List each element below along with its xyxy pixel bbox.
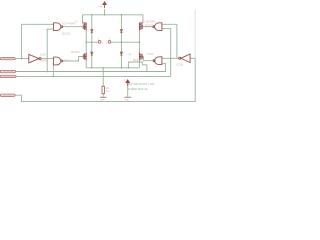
svg-text:MOTOR SUPPLY 12V: MOTOR SUPPLY 12V [128, 82, 155, 86]
wire faint right edge upper [194, 10, 196, 59]
nand gate IC1D (mirrored) [153, 57, 162, 65]
wire P4 to bus [15, 58, 195, 101]
wire vertical feedback up [21, 24, 53, 58]
svg-text:BUZ11: BUZ11 [145, 23, 154, 27]
connector pin P4 [0, 94, 15, 96]
svg-text:+5V: +5V [98, 5, 103, 8]
wire sense resistor drop [102, 68, 104, 86]
node rail dots [91, 14, 93, 16]
wire rail drop left [82, 15, 84, 23]
diode D2 (upper right) [120, 30, 122, 33]
wire inverter2 output to G4 [162, 57, 179, 59]
svg-text:1: 1 [102, 43, 104, 45]
resistor R1 sense [102, 86, 104, 94]
transistor Q4 (NMOS mirrored) [139, 52, 142, 60]
inverter IC2B (mirrored, pointing left) [179, 54, 190, 63]
motor pad 1 [98, 41, 101, 44]
connector pin P3 [0, 75, 16, 77]
wire G3 upper input from right [162, 24, 177, 58]
svg-text:FUSED MAX 4A: FUSED MAX 4A [128, 87, 148, 91]
wire right leg mid to Q4 [138, 42, 140, 52]
node bottom rail dots [91, 67, 93, 69]
wire G4 output to Q4 gate [142, 57, 155, 61]
node junction at 128.4,67.8 [128, 67, 130, 69]
wire left leg mid to Q3 [85, 42, 87, 52]
node junction at 170.7,58.3 [170, 58, 172, 60]
wire supply arrow stub [127, 86, 129, 97]
svg-text:IC1C: IC1C [63, 59, 69, 63]
wire right leg Q4 source to bottom rail [138, 61, 140, 68]
svg-text:BUZ11: BUZ11 [62, 31, 71, 35]
wire1 from P2 [16, 71, 147, 73]
diode D3 (lower left) [91, 52, 93, 55]
wire top rail VCC [83, 14, 143, 16]
wire right leg Q2 source to mid [138, 31, 140, 43]
svg-text:IC2B: IC2B [177, 63, 183, 67]
svg-text:2: 2 [106, 43, 108, 45]
node junction at 21.4,58.6 [21, 58, 23, 60]
wire P1 to inverter [0, 58, 28, 60]
svg-text:IC2A: IC2A [40, 52, 46, 56]
diode D4 (lower right) [120, 52, 122, 55]
svg-text:GND: GND [124, 99, 129, 101]
wire1 staircase around bottom rail [128, 62, 165, 72]
svg-text:IC1D: IC1D [147, 52, 153, 56]
diode D1 (upper left) [91, 30, 93, 33]
text labels red [40, 5, 183, 101]
power supply arrow bottom [126, 80, 129, 86]
node junction at 53.3,76.4 [53, 76, 55, 78]
wire G3 output to Q2 gate [143, 26, 155, 28]
wire VCC stub [104, 9, 106, 15]
transistor Q1 (NMOS) [83, 23, 87, 31]
svg-text:2: 2 [155, 66, 157, 68]
wire G3 lower input vertical to wire2 [162, 29, 171, 77]
ground under sense resistor [100, 96, 107, 98]
svg-text:BUZ11: BUZ11 [71, 50, 80, 54]
wire mid motor right [111, 41, 140, 43]
wire sense resistor to gnd [102, 94, 104, 97]
wire G1 output to Q1 gate [63, 26, 83, 28]
transistor Q3 (NMOS) [83, 52, 86, 60]
connector pin P2 [0, 70, 15, 72]
wire diode column left [91, 15, 93, 68]
transistor Q2 (NMOS mirrored) [139, 23, 143, 31]
wire mid motor left [86, 41, 98, 43]
wire inverter2 input to bus [190, 57, 195, 59]
connector pin P1 [0, 58, 15, 60]
wire G1 lower input L [47, 29, 53, 71]
svg-text:2: 2 [109, 38, 111, 41]
svg-text:+V: +V [123, 79, 126, 81]
svg-text:T1: T1 [75, 19, 79, 23]
wire bottom rail [86, 67, 139, 69]
node junction at 47.2,71.5 [46, 71, 48, 73]
wire rail drop right [142, 15, 144, 23]
wire left leg Q3 source to bottom rail [85, 61, 87, 68]
ground under supply arrow [124, 96, 131, 98]
wire G2 output to Q3 gate [63, 57, 84, 62]
wire G2 lower input vertical [52, 63, 54, 76]
node mid dots [85, 41, 87, 43]
nand gate IC1B (mirrored) [153, 23, 162, 31]
wire diode column right [120, 15, 122, 68]
nand gate IC1A [54, 23, 63, 31]
svg-text:0.1: 0.1 [106, 89, 110, 93]
node junction at 146.9,71.5 [146, 71, 148, 73]
svg-text:T4: T4 [128, 53, 132, 57]
node junction at 47.2,58.6 [46, 58, 48, 60]
wire2 from P3 [16, 75, 171, 77]
text notes green [128, 82, 155, 91]
svg-text:4049: 4049 [40, 58, 47, 62]
nand gate IC1C [54, 57, 63, 65]
svg-text:GND: GND [100, 99, 105, 101]
power VCC arrow top [103, 2, 106, 8]
wire inverter output to G2 [41, 58, 53, 60]
motor pad 2 [108, 41, 111, 44]
inverter IC2A [29, 54, 41, 63]
svg-text:BUZ11: BUZ11 [133, 58, 142, 62]
wire left leg Q1 source to mid [85, 31, 87, 43]
